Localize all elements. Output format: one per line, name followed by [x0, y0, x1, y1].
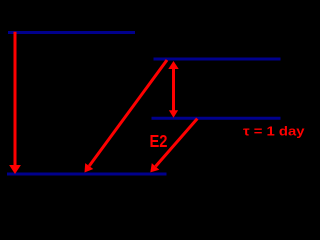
svg-text:E2: E2 [150, 131, 168, 151]
energy level: isomeric state (tau = 1 day) [152, 117, 281, 120]
svg-text:τ = 1 day: τ = 1 day [243, 123, 306, 138]
energy level: ground state [7, 173, 167, 176]
arrow: E2 decay from isomeric state to ground state (short diagonal) [150, 119, 197, 173]
arrow: double-headed vertical between intermediate and isomeric states [168, 61, 178, 118]
energy level: upper state (top-left) [8, 31, 135, 34]
energy level: intermediate state (middle-right) [154, 58, 281, 61]
arrow: direct decay from upper state to ground state (vertical, left) [9, 32, 21, 174]
arrow: decay from intermediate state to ground state (long diagonal) [85, 60, 168, 173]
